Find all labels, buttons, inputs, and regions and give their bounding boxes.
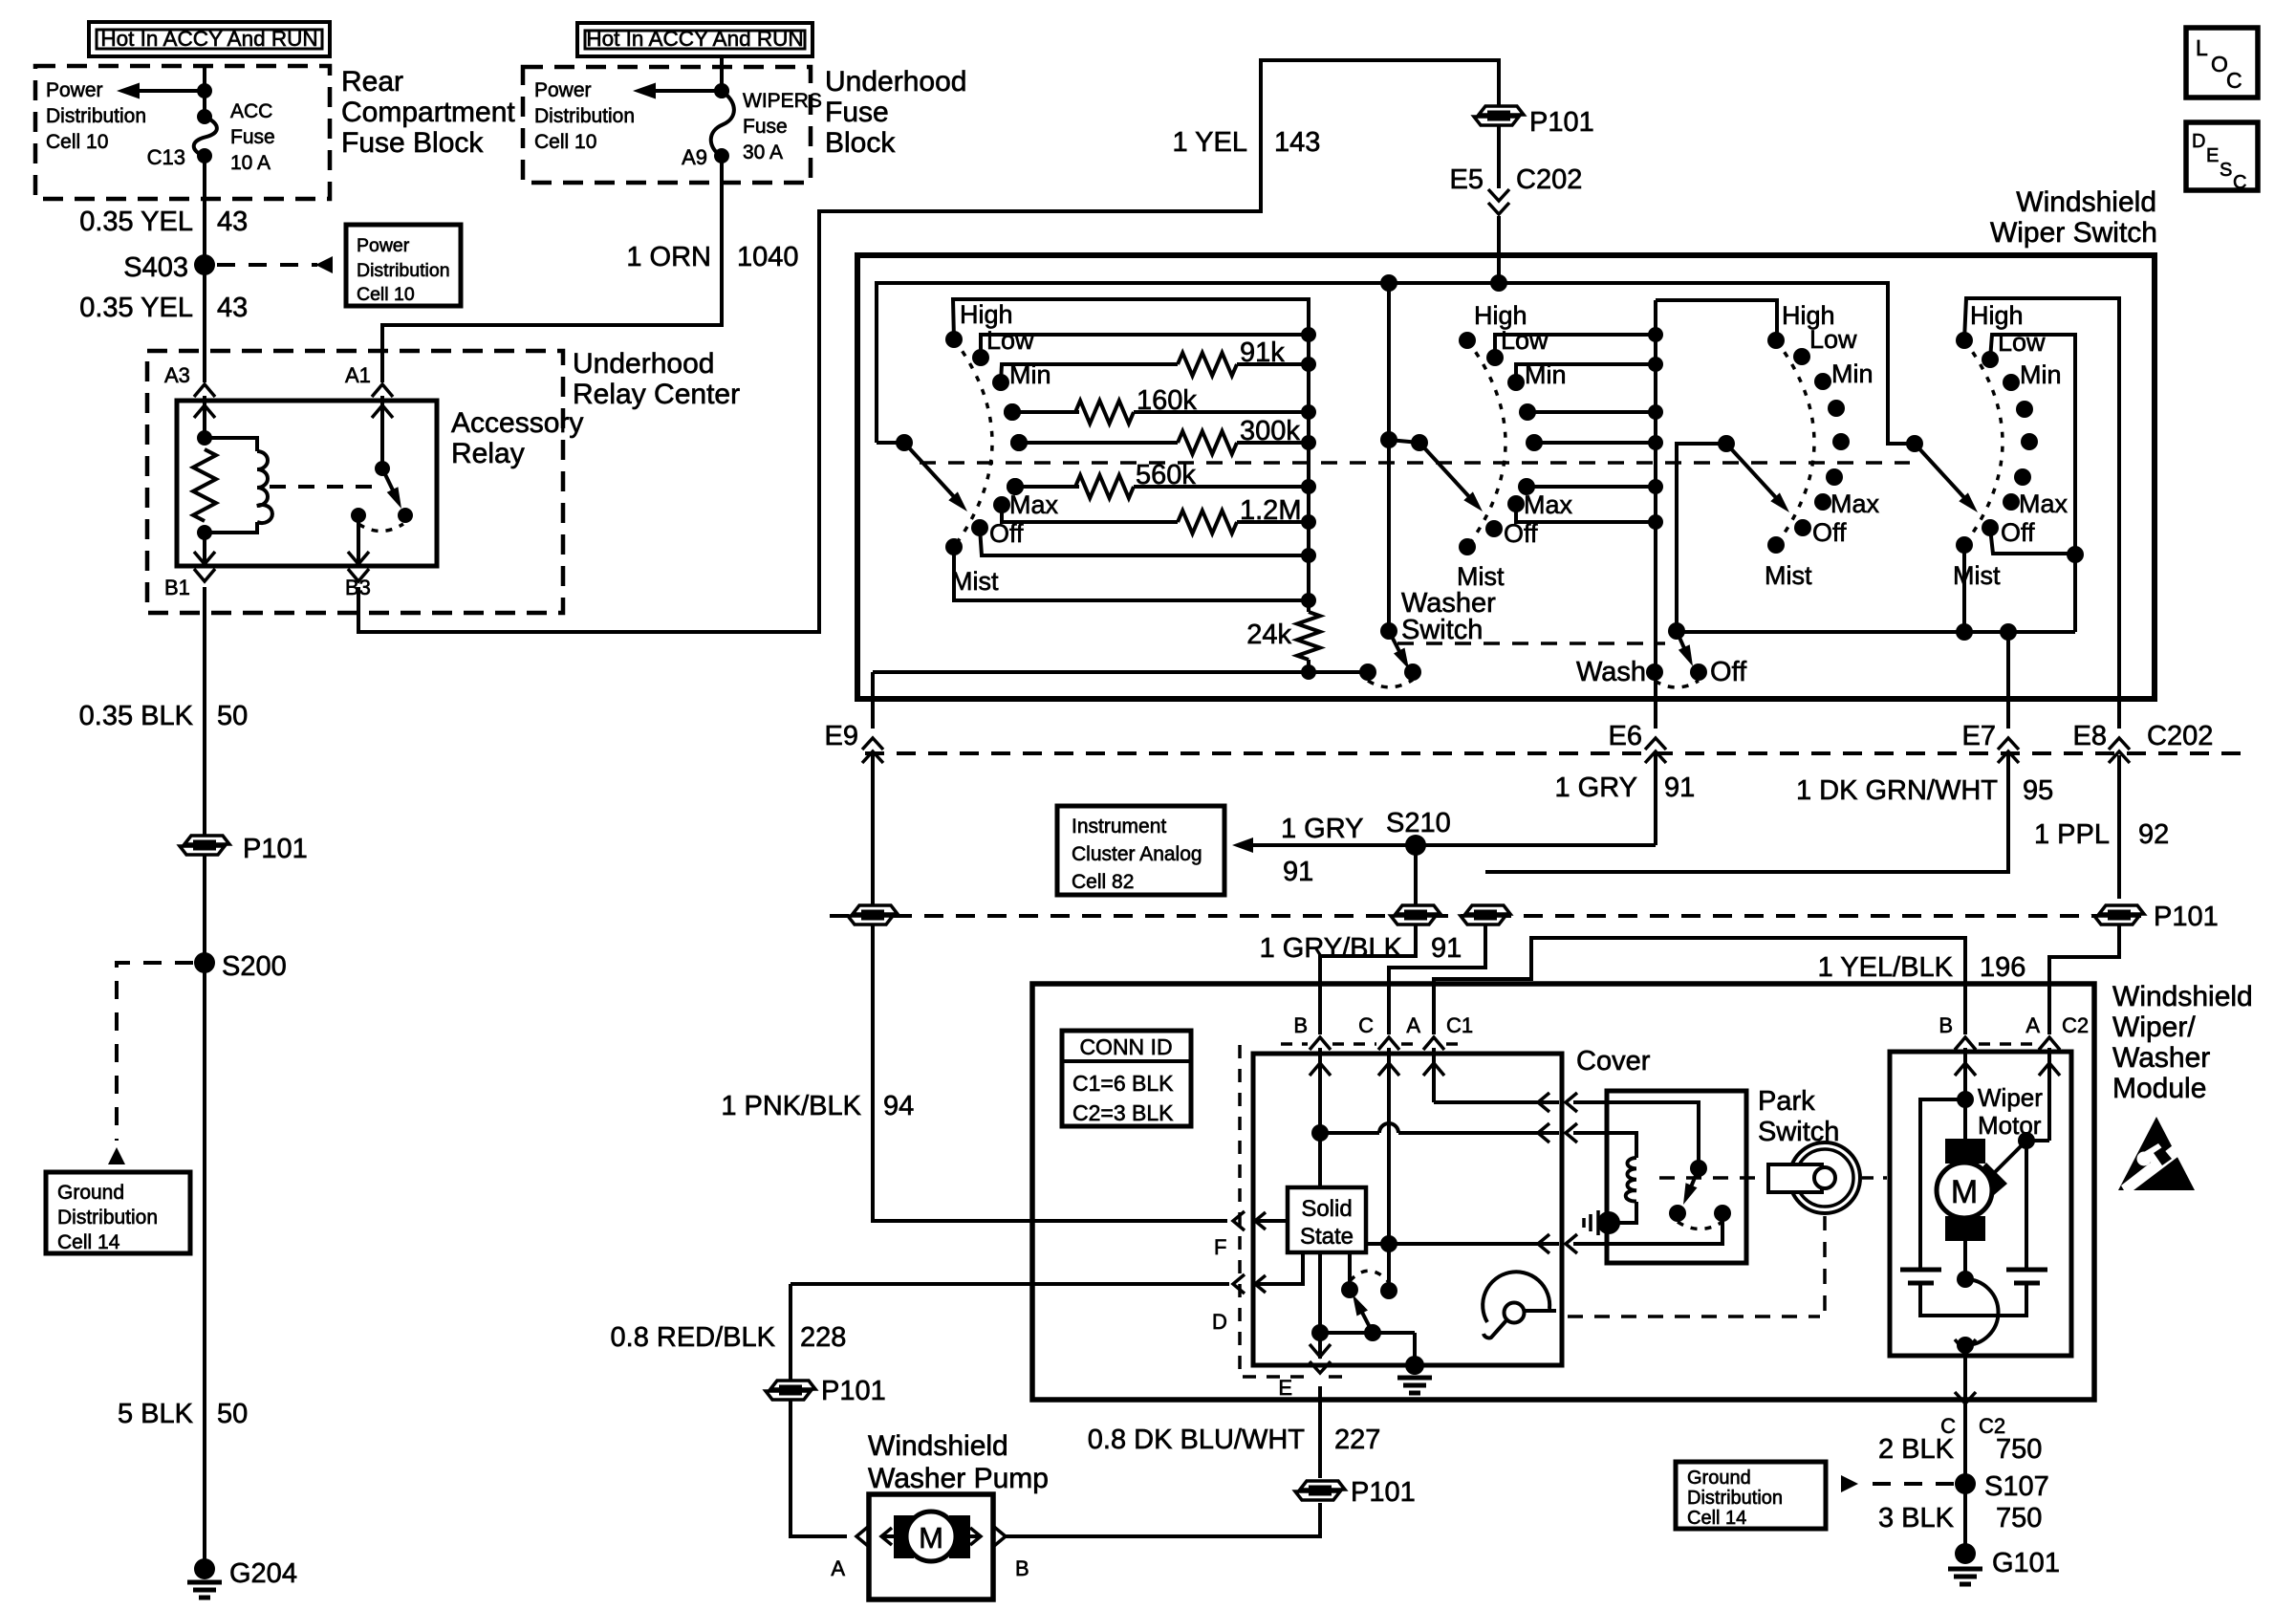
svg-text:B: B (1293, 1013, 1308, 1037)
wire: E9 exit leg (871, 672, 875, 729)
svg-text:E8: E8 (2073, 721, 2107, 751)
power label box: Hot In ACCY And RUN (underhood fuse block) (577, 23, 812, 56)
svg-text:B1: B1 (164, 576, 190, 599)
node: s4 contact 3 (2016, 401, 2033, 418)
svg-text:Windshield: Windshield (2112, 981, 2253, 1012)
wire: A1 into relay switch common (380, 396, 384, 468)
svg-text:E7: E7 (1962, 721, 1996, 751)
wire: relay output to B3 with down arrow (357, 515, 360, 564)
svg-text:Windshield: Windshield (2016, 186, 2156, 218)
svg-text:Mist: Mist (951, 567, 999, 596)
node: s1 contact 0 (945, 331, 963, 348)
svg-text:P101: P101 (1351, 1477, 1416, 1508)
svg-text:M: M (919, 1521, 943, 1555)
component box: wiper motor (1890, 1052, 2071, 1356)
svg-text:C: C (2233, 172, 2246, 193)
resistor: relay coil suppression resistor (193, 449, 216, 521)
node: bus dot row Low s1 (1301, 327, 1316, 342)
wire: coil bottom branch (205, 522, 257, 533)
wire: motor output to C2-C (1963, 1345, 1967, 1354)
icon: park switch shaft (1789, 1142, 1860, 1213)
svg-text:Low: Low (1998, 328, 2046, 357)
svg-text:C2: C2 (2062, 1013, 2089, 1037)
node: s1 contact 6 (993, 496, 1010, 513)
wire: section1 Low row (981, 335, 1309, 358)
wire: washer relay arm common (1320, 1331, 1415, 1335)
wire: coil top branch (205, 438, 257, 451)
svg-text:1 PPL: 1 PPL (2034, 819, 2110, 850)
svg-text:Solid: Solid (1301, 1196, 1352, 1222)
wire: E9 to PNK/BLK run (871, 755, 875, 905)
wire: E6 down to S210 line (1654, 755, 1657, 845)
svg-text:P101: P101 (2154, 902, 2219, 932)
node: park contact arc top (1957, 1271, 1974, 1288)
svg-text:0.35 BLK: 0.35 BLK (79, 701, 194, 731)
connector chevron A1 (372, 384, 393, 397)
svg-text:WIPERS: WIPERS (743, 90, 822, 112)
wire: section2 row4 (1527, 410, 1656, 414)
node: bus dot row5 s2 (1648, 435, 1663, 450)
svg-text:Distribution: Distribution (534, 105, 635, 127)
svg-text:143: 143 (1274, 127, 1320, 158)
node: s1 contact 8 (945, 538, 963, 555)
wire: section1 row4 left leg (1012, 410, 1079, 414)
svg-text:M: M (1951, 1174, 1978, 1210)
svg-text:Max: Max (1830, 490, 1880, 518)
svg-text:S403: S403 (123, 252, 188, 283)
wire: section1 High row (953, 299, 1309, 339)
connector C202 E6 chevrons (1645, 738, 1666, 750)
ground G101 (1955, 1543, 1976, 1564)
wire: section1 Off row (980, 528, 1309, 555)
svg-text:94: 94 (883, 1091, 914, 1121)
wire: E5 into wiper switch (1497, 216, 1501, 283)
wire: section2 row5 (1534, 441, 1656, 445)
wire: row2 into cover to coil (1573, 1133, 1636, 1158)
node: park contact arc bottom (1957, 1337, 1974, 1354)
svg-text:G204: G204 (229, 1558, 297, 1589)
node: s2 contact 3 (1507, 495, 1525, 512)
dashed reference from S200 to Ground Distribution (117, 963, 193, 1141)
svg-text:Cover: Cover (1576, 1046, 1651, 1077)
wire: s4 pivot link (1888, 442, 1915, 446)
svg-text:Min: Min (1009, 360, 1051, 389)
svg-text:Compartment: Compartment (341, 97, 515, 128)
svg-text:Washer: Washer (2112, 1042, 2210, 1074)
connector chevron A3 (194, 384, 215, 397)
svg-text:196: 196 (1980, 952, 2025, 983)
wire: section2 Min row (1516, 364, 1656, 382)
reference arrow to Power Distribution (left) (134, 89, 205, 93)
wire: section1 row6 left leg (1015, 485, 1079, 489)
dashed box: Rear Compartment Fuse Block boundary (35, 66, 330, 199)
node: park contact left (1669, 1205, 1686, 1222)
node: B branch junction (1311, 1124, 1329, 1142)
wire/arrow: D output from solid state (1253, 1252, 1303, 1284)
svg-text:Distribution: Distribution (46, 105, 146, 127)
node: s4 pivot (1906, 435, 1923, 452)
splice S200 (194, 952, 215, 973)
dashed line: connector C202 boundary (865, 751, 2242, 755)
node: washer switch1 pivot (1380, 622, 1397, 640)
wire: section1 Min row left leg (1001, 364, 1178, 382)
wire: left brush leg (1920, 1099, 1965, 1268)
dashed line: C1 connector face (1281, 1042, 1308, 1046)
wire: section1 bus (1307, 299, 1310, 612)
svg-text:Fuse: Fuse (825, 97, 889, 128)
wire: section4 Off link (1990, 528, 2075, 554)
logic box: wiper module electronics (1253, 1054, 1562, 1365)
connector chevrons cover row2 (1538, 1123, 1549, 1142)
reference arrow to Instrument Cluster (1232, 838, 1253, 853)
svg-text:Rear: Rear (341, 66, 403, 98)
dashed arc: park switch throw (1678, 1222, 1722, 1229)
svg-text:A9: A9 (682, 145, 707, 169)
svg-text:Wiper Switch: Wiper Switch (1990, 217, 2157, 249)
resistor 560k (1075, 475, 1134, 498)
connector C202 E9 chevrons (862, 738, 883, 750)
svg-text:CONN ID: CONN ID (1079, 1034, 1172, 1059)
svg-text:750: 750 (1996, 1503, 2042, 1534)
connector P101 on E8 wire (2099, 905, 2144, 914)
svg-text:228: 228 (800, 1322, 846, 1353)
svg-text:A1: A1 (345, 363, 371, 387)
washer switch1 arm (1389, 631, 1403, 659)
node: bus dot row6 s1 (1301, 479, 1316, 494)
wire: section1 Max row left leg (1002, 505, 1178, 522)
svg-text:Max: Max (1009, 490, 1059, 519)
inductor: relay coil (257, 451, 272, 523)
node: relay switch output contact (351, 508, 366, 523)
node: s4 contact 8 (1956, 536, 1973, 554)
washer switch2 arm (1677, 631, 1688, 657)
dashed arc washer sw1 throw (1368, 680, 1413, 687)
wire: C2-C ground run (1963, 1429, 1967, 1554)
svg-text:D: D (1212, 1310, 1227, 1334)
node: Off contact ws2 (1690, 664, 1707, 681)
svg-text:91: 91 (1431, 933, 1462, 964)
chassis ground symbol on cover (1597, 1211, 1620, 1234)
svg-text:S: S (2220, 160, 2232, 181)
svg-text:Cell 10: Cell 10 (357, 284, 415, 305)
washer relay arm (module) (1357, 1303, 1373, 1333)
connector C202 E7 chevrons (1998, 738, 2019, 750)
node: s2 contact 5 (1459, 538, 1476, 555)
node: s4 contact 4 (2021, 433, 2038, 450)
wire: A into logic to park pivot line (1432, 1048, 1436, 1102)
svg-text:P101: P101 (821, 1376, 886, 1406)
wire/arrow: F output from solid state (1253, 1219, 1288, 1223)
node: bus dot row4 s1 (1301, 404, 1316, 420)
node: s4 contact 5 (2014, 468, 2031, 486)
svg-text:Max: Max (2019, 490, 2069, 518)
svg-text:10 A: 10 A (230, 152, 271, 174)
svg-text:E: E (2206, 145, 2219, 166)
wire: E7 exit (2006, 632, 2010, 729)
svg-text:Windshield: Windshield (868, 1430, 1008, 1462)
svg-text:50: 50 (217, 701, 248, 731)
wire: armature to park contact (1963, 1241, 1967, 1279)
wire: to splice S403 (203, 222, 206, 306)
node: washer relay arm pivot (1364, 1324, 1381, 1341)
node: E5 entry junction on feed bus (1490, 274, 1507, 292)
svg-text:Mist: Mist (1457, 562, 1505, 591)
node: s4 contact 1 (1982, 351, 1999, 368)
svg-text:Min: Min (2020, 360, 2062, 389)
svg-text:G101: G101 (1992, 1548, 2060, 1578)
wire: feed from hot bus into fuse block (203, 66, 206, 117)
svg-text:High: High (960, 300, 1013, 329)
svg-text:Underhood: Underhood (573, 348, 714, 380)
wire: pump B to DK BLU/WHT (1006, 1503, 1320, 1536)
svg-text:30 A: 30 A (743, 141, 783, 163)
svg-text:50: 50 (217, 1399, 248, 1429)
wire: WIPERS fuse output (1 ORN 1040) down and left to relay A1 (382, 156, 722, 382)
fuse: WIPERS Fuse 30 A (A9) (711, 91, 734, 156)
node: washer switch2 pivot (1668, 622, 1685, 640)
svg-text:Min: Min (1831, 359, 1874, 388)
wire: E7 from P101 to C1-C (1389, 925, 1485, 1034)
dashed arc washer sw2 throw (1655, 681, 1699, 687)
svg-text:Max: Max (1524, 490, 1573, 519)
svg-text:1 GRY: 1 GRY (1554, 772, 1637, 803)
node: s2 contact 1 (1486, 349, 1504, 366)
relay switch arm with arrowhead (382, 468, 396, 496)
wire: E8 down to P101 (2117, 755, 2121, 899)
dashed arc: section3 wiper travel (1776, 340, 1814, 545)
svg-text:B: B (1015, 1556, 1029, 1580)
resistor 24k on section1 bus (1297, 612, 1320, 660)
svg-text:Block: Block (825, 127, 896, 159)
wire: s2 pivot link (1389, 440, 1419, 443)
wire: switch internal feed bus (top and left legs) (877, 283, 1915, 444)
node: s2 row4 contact (1519, 403, 1536, 421)
wire: section3 High row to section2 bus top (1656, 300, 1777, 340)
svg-text:Low: Low (986, 326, 1034, 355)
svg-text:A: A (1406, 1013, 1420, 1037)
node: s2 contact 4 (1485, 520, 1503, 537)
wire: C into logic down to relay contact (1387, 1048, 1391, 1291)
node: s3 contact 7 (1794, 519, 1811, 536)
svg-text:2 BLK: 2 BLK (1878, 1434, 1955, 1465)
svg-text:43: 43 (217, 207, 248, 237)
svg-text:1040: 1040 (737, 242, 799, 272)
wire: relay common to internal ground (1413, 1333, 1417, 1365)
node: s1 contact 5 (1007, 478, 1024, 495)
svg-text:1 YEL: 1 YEL (1173, 127, 1247, 158)
svg-text:F: F (1214, 1235, 1226, 1259)
wire: E output from module (1318, 1386, 1322, 1478)
svg-text:B: B (1939, 1013, 1953, 1037)
node: s3 contact 2 (1814, 373, 1831, 390)
svg-text:0.35 YEL: 0.35 YEL (79, 293, 193, 323)
wire: row1 into cover to park pivot (1573, 1102, 1699, 1168)
dashed line: C2 connector face (1979, 1042, 2036, 1046)
svg-text:Accessory: Accessory (451, 407, 583, 439)
component box: Windshield Wiper/Washer Module (1032, 984, 2094, 1400)
reference box: Ground Distribution Cell 14 (left) (46, 1172, 190, 1253)
node: bus dot row4 s2 (1648, 404, 1663, 420)
svg-text:C2=3 BLK: C2=3 BLK (1072, 1100, 1174, 1125)
dashed reference from S403 to Power Distribution Cell 10 (217, 263, 317, 267)
svg-text:E5: E5 (1450, 164, 1484, 195)
brush link diagonal (1993, 1141, 2026, 1174)
node: C to solid-state junction (1380, 1235, 1397, 1252)
svg-text:Off: Off (1504, 519, 1538, 548)
wire: S210 down to P101 (1414, 845, 1418, 905)
node: s3 contact 0 (1767, 332, 1785, 349)
dashed arc: section4 wiper travel (1964, 340, 2003, 545)
svg-text:91: 91 (1283, 857, 1313, 887)
node: s3 contact 8 (1767, 536, 1785, 554)
node: relay contact (solid state side) (1341, 1281, 1358, 1298)
wire: PNK/BLK down and right to module F (873, 925, 1227, 1221)
splice S403 (194, 254, 215, 275)
node: s1 contact 1 (972, 349, 989, 366)
svg-text:C202: C202 (2147, 721, 2213, 751)
wire: E6 exit (1654, 672, 1657, 729)
svg-text:Relay Center: Relay Center (573, 379, 740, 410)
reference box: Instrument Cluster Analog Cell 82 (1057, 806, 1224, 895)
svg-text:Distribution: Distribution (357, 260, 450, 281)
wire: coil bottom to chassis point (1610, 1202, 1636, 1223)
reference arrow to Power Distribution (left) 2 (650, 89, 722, 93)
svg-text:D: D (2192, 131, 2205, 152)
connector P101 on PNK/BLK wire (853, 905, 898, 914)
wire: P101 to C202 E5 (1497, 126, 1501, 188)
svg-text:560k: 560k (1136, 460, 1196, 490)
wire: section2 row6 (1527, 485, 1656, 489)
node: bus dot Max s1 (1301, 514, 1316, 530)
node: bus dot row Min s1 (1301, 357, 1316, 372)
svg-text:Module: Module (2112, 1073, 2206, 1104)
wire: C2-A into motor (2047, 1048, 2051, 1141)
connector P101 on left ground wire (184, 836, 229, 844)
svg-text:Min: Min (1525, 360, 1567, 389)
wire: relay B3 output loop to windshield wiper switch feed (358, 60, 1499, 632)
wire: RED/BLK bottom run to pump (791, 1526, 847, 1536)
node: bus dot Mist s1 (1301, 593, 1316, 608)
svg-text:P101: P101 (1529, 107, 1594, 138)
switch arm section2 (1419, 443, 1474, 502)
connector chevrons cover row1 (1538, 1093, 1549, 1112)
wire: E7 down then left (1485, 755, 2008, 872)
wire: YEL/BLK jumper C1-A to C2-B (1434, 938, 1965, 1034)
svg-text:Low: Low (1501, 326, 1549, 355)
node: bus dot row5 s1 (1301, 435, 1316, 450)
connector chevron C1-C (1378, 1037, 1399, 1050)
dashed line: park switch actuation (1659, 1176, 1765, 1180)
dashed box: Underhood Relay Center boundary (147, 351, 563, 613)
svg-text:S107: S107 (1984, 1471, 2049, 1502)
wire: RED/BLK from D to washer pump A (789, 1284, 792, 1526)
relay box: Accessory Relay (177, 401, 437, 566)
switch arm section3 (1726, 444, 1781, 503)
svg-text:Cluster Analog: Cluster Analog (1072, 843, 1202, 865)
node: washer sw1 contact right (1404, 664, 1421, 681)
node: s4 low-off junction (2067, 546, 2084, 563)
svg-text:Off: Off (1710, 657, 1747, 687)
connector P101 on GRY/BLK wire (1396, 905, 1440, 914)
washer pump motor (881, 1528, 892, 1545)
power label box: Hot In ACCY And RUN (rear fuse block) (89, 22, 330, 56)
svg-text:Ground: Ground (57, 1182, 124, 1204)
wire: A to brush node (2026, 1139, 2049, 1142)
node: s3 contact 4 (1832, 433, 1850, 450)
splice S107 (1955, 1473, 1976, 1494)
dashed arc: section2 wiper travel (1467, 340, 1505, 547)
svg-text:A3: A3 (164, 363, 190, 387)
resistor 1.2M (1178, 511, 1237, 533)
svg-text:C13: C13 (147, 145, 185, 169)
connector chevron E (1310, 1361, 1331, 1373)
node: s4 contact 6 (2003, 493, 2020, 511)
connector chevron B1 (194, 569, 215, 581)
wire: section4 Low rect (1990, 335, 2075, 555)
fuse: ACC Fuse 10 A (C13) (194, 117, 217, 156)
dashed reference S107 to ground distribution (1862, 1482, 1954, 1486)
node: s2 contact 2 (1507, 374, 1525, 391)
node: section2 feed junction on feed bus (1380, 274, 1397, 292)
connector chevron C1-A (1423, 1037, 1444, 1050)
svg-text:1 PNK/BLK: 1 PNK/BLK (721, 1091, 861, 1121)
node: bus dot Low s2 (1648, 327, 1663, 342)
svg-text:L: L (2196, 35, 2208, 60)
resistor 300k (1178, 431, 1237, 454)
dashed line: washer switch gang link (1397, 642, 1665, 645)
inductor: park switch coil (1626, 1158, 1636, 1202)
node: s3 contact 1 (1793, 348, 1810, 365)
component box: Windshield Washer Pump (869, 1494, 993, 1599)
wire: coil bottom to B1 with down arrow (203, 533, 206, 564)
connector chevron C2-B (1955, 1037, 1976, 1050)
node: s4 contact 2 (2003, 374, 2020, 391)
connector C202 E8 chevrons (2109, 738, 2130, 750)
svg-text:92: 92 (2138, 819, 2169, 850)
svg-text:Washer Pump: Washer Pump (868, 1463, 1049, 1494)
svg-text:1 YEL/BLK: 1 YEL/BLK (1818, 952, 1954, 983)
wire: fuse output down through dashed box (203, 156, 206, 222)
dashed link: relay actuation (270, 485, 373, 489)
wire: s4 Mist leg (1962, 545, 1966, 632)
svg-text:Underhood: Underhood (825, 66, 966, 98)
svg-text:S210: S210 (1386, 808, 1451, 838)
connector chevron C2-C (1955, 1392, 1976, 1403)
dashed arc: section1 wiper travel (954, 339, 992, 547)
svg-text:24k: 24k (1246, 620, 1291, 650)
component box: Solid State (1288, 1187, 1366, 1252)
svg-text:750: 750 (1996, 1434, 2042, 1465)
svg-text:227: 227 (1334, 1425, 1380, 1455)
wire: switch bottom bus to washer contact (873, 670, 1368, 674)
svg-text:Off: Off (989, 519, 1024, 548)
svg-text:1 GRY/BLK: 1 GRY/BLK (1260, 933, 1403, 964)
svg-text:Off: Off (2001, 518, 2035, 547)
svg-text:0.35 YEL: 0.35 YEL (79, 207, 193, 237)
svg-text:C1=6 BLK: C1=6 BLK (1072, 1071, 1174, 1096)
svg-text:A: A (2025, 1013, 2040, 1037)
icon: park cam and follower (1483, 1272, 1549, 1322)
svg-text:Cell 82: Cell 82 (1072, 871, 1134, 893)
arc: motor park switch contact (1965, 1279, 1999, 1345)
wire: right contact to row3 (1573, 1213, 1722, 1244)
node: bus dot row6 s2 (1648, 479, 1663, 494)
svg-text:5 BLK: 5 BLK (118, 1399, 194, 1429)
node: relay coil top (197, 430, 212, 446)
svg-text:C: C (1358, 1013, 1374, 1037)
node: bus dot Off s1 (1301, 548, 1316, 563)
svg-text:1 ORN: 1 ORN (626, 242, 711, 272)
